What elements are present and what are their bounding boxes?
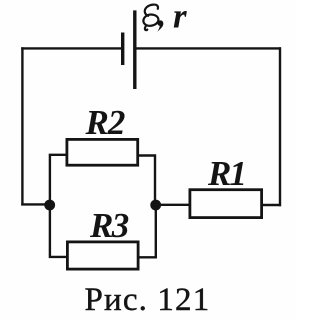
resistor R2 body bbox=[67, 139, 138, 165]
wire bottom-left horizontal to node A bbox=[21, 203, 50, 205]
node B (right junction dot) bbox=[150, 200, 161, 211]
wire R2 branch right (R2 to node B) bbox=[139, 156, 156, 206]
wire R2 branch left (node A up and into R2) bbox=[50, 155, 67, 205]
label comma after script-E bbox=[157, 20, 163, 31]
wire top-left (battery negative to left corner) bbox=[21, 47, 122, 49]
wire R3 branch left (node A down and into R3) bbox=[50, 205, 67, 257]
wire right side (down from top-right corner) bbox=[279, 47, 281, 206]
svg-text:R1: R1 bbox=[207, 154, 245, 193]
battery E,r long plate (positive) bbox=[133, 10, 136, 89]
battery E,r short plate (negative) bbox=[121, 33, 124, 66]
label EMF script-E bbox=[143, 5, 158, 31]
wire R1 right lead to right side bbox=[262, 204, 281, 206]
svg-text:R2: R2 bbox=[85, 103, 125, 142]
wire node B to R1 bbox=[156, 204, 190, 206]
svg-text:Рис. 121: Рис. 121 bbox=[85, 282, 211, 318]
resistor R1 body bbox=[190, 190, 262, 218]
svg-text:r: r bbox=[173, 0, 187, 35]
wire left side (down from top-left corner) bbox=[21, 47, 23, 205]
resistor R3 body bbox=[67, 242, 138, 269]
wire R3 branch right (R3 to node B) bbox=[139, 205, 156, 257]
svg-text:R3: R3 bbox=[89, 206, 129, 245]
node A (left junction dot) bbox=[44, 200, 55, 211]
wire top-right (battery positive to right corner) bbox=[135, 47, 281, 49]
